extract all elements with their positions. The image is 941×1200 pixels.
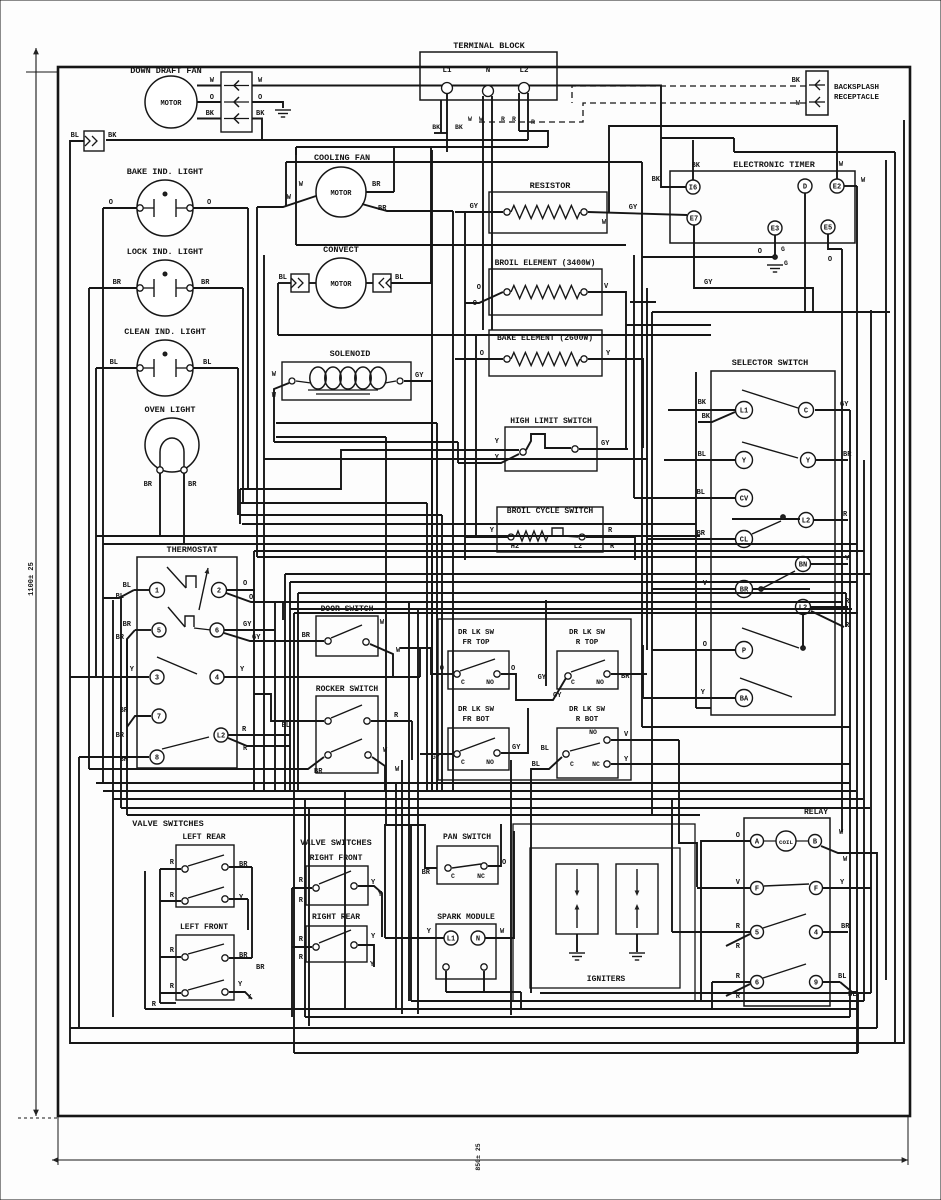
svg-text:TERMINAL BLOCK: TERMINAL BLOCK (453, 41, 525, 51)
svg-text:C: C (461, 759, 465, 766)
wire BL left bus (70, 120, 904, 1043)
svg-text:BL: BL (532, 761, 540, 769)
svg-text:BK: BK (256, 110, 265, 118)
selector pin CV (736, 490, 753, 507)
svg-text:RECEPTACLE: RECEPTACLE (834, 94, 880, 102)
svg-text:DR LK SW: DR LK SW (569, 629, 606, 637)
svg-text:L1: L1 (740, 407, 748, 415)
svg-text:7: 7 (157, 713, 161, 721)
svg-text:BR: BR (113, 279, 122, 287)
svg-text:N: N (486, 67, 491, 75)
convect connector left (291, 274, 309, 292)
left bus vertical wires (102, 208, 104, 598)
wire verticals left of channel (239, 489, 241, 524)
svg-text:OVEN LIGHT: OVEN LIGHT (144, 405, 195, 415)
wires r bot (611, 739, 679, 741)
right rear wires (292, 946, 312, 948)
door switch box (316, 616, 378, 656)
selector pin BN (796, 557, 811, 572)
thermostat wires pin L2 (228, 734, 290, 736)
svg-text:BROIL CYCLE SWITCH: BROIL CYCLE SWITCH (507, 507, 594, 516)
svg-text:COOLING FAN: COOLING FAN (314, 153, 370, 163)
wires r top (611, 673, 640, 675)
wire pan to spark (385, 825, 437, 938)
svg-text:BR: BR (256, 964, 265, 972)
timer pin E2 (830, 179, 844, 193)
rocker switch box (316, 696, 378, 773)
rocker switch wires (254, 694, 324, 721)
svg-text:F: F (814, 885, 818, 893)
svg-text:D: D (803, 183, 807, 191)
resistor R1 box (489, 192, 607, 233)
svg-text:1100± 25: 1100± 25 (28, 562, 36, 596)
svg-text:E2: E2 (833, 183, 841, 191)
svg-text:GY: GY (243, 621, 252, 629)
motor M1 down draft fan (145, 76, 197, 128)
igniters enclosing boxes (513, 824, 695, 1001)
bottom dimension arrow 850+-25 (52, 1159, 908, 1161)
thermostat pin L2 (214, 728, 228, 742)
svg-text:THERMOSTAT: THERMOSTAT (166, 545, 217, 555)
svg-text:O: O (477, 284, 481, 292)
svg-text:850± 25: 850± 25 (475, 1143, 482, 1170)
selector pin P (736, 642, 753, 659)
svg-text:L1: L1 (442, 67, 452, 75)
dashed wire BK to backsplash (572, 86, 806, 103)
wire verticals to selector (695, 372, 697, 708)
svg-text:BAKE IND. LIGHT: BAKE IND. LIGHT (127, 167, 204, 177)
svg-text:LEFT FRONT: LEFT FRONT (180, 923, 228, 932)
svg-text:O: O (207, 199, 211, 207)
bake element 2600W box (489, 330, 602, 376)
wire horizontals lower mid (96, 782, 849, 784)
dashed wire W to backsplash (477, 103, 806, 122)
svg-text:BL: BL (697, 489, 705, 497)
svg-text:C: C (804, 407, 808, 415)
svg-text:L2: L2 (802, 517, 810, 525)
convect connector right (373, 274, 391, 292)
svg-text:BL: BL (541, 745, 549, 753)
relay pin A (751, 835, 764, 848)
svg-text:N: N (476, 935, 480, 943)
timer pin D (798, 179, 812, 193)
left valve bus wires (159, 869, 161, 1003)
svg-text:BR: BR (123, 621, 132, 629)
svg-text:2: 2 (217, 587, 221, 595)
svg-text:4: 4 (215, 674, 219, 682)
pan switch wires (488, 824, 501, 866)
left rear wires (160, 868, 181, 870)
svg-text:BR: BR (144, 481, 153, 489)
svg-text:I6: I6 (689, 184, 697, 192)
timer pin I6 (686, 180, 700, 194)
motor M3 convect (316, 258, 366, 308)
relay pin 4 (810, 926, 823, 939)
svg-text:BR: BR (314, 768, 323, 776)
broil element 3400W box (489, 269, 602, 315)
svg-text:BK: BK (652, 176, 661, 184)
svg-text:BR: BR (422, 869, 431, 877)
high limit wires (465, 449, 519, 451)
svg-text:BR: BR (201, 279, 210, 287)
spark module pin N (471, 931, 485, 945)
thermostat wires pin7 (127, 716, 151, 727)
wire cooling fan box (295, 147, 297, 155)
selector pin Y right (801, 453, 816, 468)
svg-text:O: O (480, 350, 484, 358)
svg-text:DOWN DRAFT FAN: DOWN DRAFT FAN (130, 66, 201, 76)
electronic timer box (670, 171, 855, 243)
wire O to ground (252, 102, 283, 108)
svg-text:GY: GY (704, 279, 713, 287)
svg-text:BR: BR (302, 632, 311, 640)
svg-text:BL: BL (71, 132, 79, 140)
svg-text:O: O (703, 641, 707, 649)
svg-text:BL: BL (123, 582, 131, 590)
svg-text:C: C (571, 679, 575, 686)
thermostat wires pin6 (224, 629, 275, 631)
svg-text:VALVE SWITCHES: VALVE SWITCHES (300, 838, 371, 848)
svg-text:GY: GY (470, 203, 479, 211)
svg-text:BK: BK (108, 132, 117, 140)
wire bus under convect (278, 334, 711, 336)
svg-text:PAN SWITCH: PAN SWITCH (443, 833, 491, 842)
svg-text:O: O (109, 199, 113, 207)
svg-text:RELAY: RELAY (804, 808, 828, 817)
svg-text:W: W (468, 116, 472, 123)
wire BK loop (106, 119, 262, 141)
connector BL-BK (84, 131, 104, 151)
svg-text:P: P (742, 647, 746, 655)
svg-text:BK: BK (455, 124, 463, 131)
svg-text:BA: BA (740, 695, 749, 703)
thermostat wires pin8 (79, 756, 149, 758)
thermostat wires pin1 (134, 589, 150, 591)
selector pin Y left (736, 452, 753, 469)
high limit switch box (505, 427, 597, 471)
broil element wires (465, 292, 503, 303)
svg-text:E3: E3 (771, 225, 779, 233)
svg-text:BR: BR (841, 923, 850, 931)
svg-text:HIGH LIMIT SWITCH: HIGH LIMIT SWITCH (510, 417, 592, 426)
svg-text:SOLENOID: SOLENOID (330, 349, 371, 359)
svg-text:5: 5 (755, 929, 759, 937)
motor M2 cooling fan (316, 167, 366, 217)
ground igniter 2 (636, 934, 638, 952)
timer pin E7 (687, 211, 701, 225)
convect wires (309, 282, 316, 284)
svg-text:BL: BL (395, 274, 403, 282)
svg-text:GY: GY (601, 440, 610, 448)
svg-text:SELECTOR SWITCH: SELECTOR SWITCH (732, 358, 809, 368)
svg-text:C: C (570, 761, 574, 768)
svg-text:BL: BL (698, 451, 706, 459)
wire center vertical channel (431, 150, 433, 790)
svg-text:RIGHT FRONT: RIGHT FRONT (310, 854, 363, 863)
wire clean light (96, 367, 137, 369)
ground down draft fan (275, 109, 291, 111)
svg-text:BK: BK (698, 399, 707, 407)
wire bus left channel (112, 600, 114, 1017)
svg-text:BN: BN (799, 561, 807, 569)
svg-text:BR: BR (378, 205, 387, 213)
svg-text:NC: NC (592, 761, 600, 768)
svg-text:BAKE ELEMENT (2600W): BAKE ELEMENT (2600W) (497, 334, 593, 343)
svg-text:GY: GY (512, 744, 521, 752)
svg-text:DR LK SW: DR LK SW (458, 629, 495, 637)
right front valve switch (306, 866, 368, 905)
svg-text:O: O (258, 94, 262, 102)
wire right bus verticals (841, 249, 843, 832)
relay coil (776, 831, 796, 851)
thermostat box (137, 557, 237, 768)
outer border frame (58, 67, 910, 1116)
svg-text:BL: BL (279, 274, 287, 282)
resistor wires (455, 211, 503, 213)
thermostat wires pin3 (70, 676, 149, 678)
right front wires (292, 887, 312, 889)
terminal block (420, 52, 557, 100)
svg-text:BK: BK (702, 413, 711, 421)
svg-text:9: 9 (814, 979, 818, 987)
svg-text:ELECTRONIC TIMER: ELECTRONIC TIMER (733, 160, 816, 170)
relay pin F left (751, 882, 764, 895)
svg-text:E7: E7 (690, 215, 698, 223)
svg-text:ROCKER SWITCH: ROCKER SWITCH (316, 685, 379, 694)
svg-text:VALVE SWITCHES: VALVE SWITCHES (132, 819, 203, 829)
backsplash receptacle (806, 71, 828, 115)
svg-text:IGNITERS: IGNITERS (587, 975, 626, 984)
down draft fan connector (221, 72, 252, 132)
svg-text:G: G (781, 246, 785, 253)
igniter 1 (556, 864, 598, 934)
timer wires (692, 140, 694, 180)
selector pin CL (736, 531, 753, 548)
wire oven light terminals (159, 473, 161, 536)
svg-text:BR: BR (372, 181, 381, 189)
svg-text:NC: NC (477, 873, 485, 880)
svg-text:NO: NO (589, 729, 597, 736)
wire bottom verticals (510, 760, 512, 1015)
svg-text:BL: BL (110, 359, 118, 367)
svg-text:R BOT: R BOT (576, 716, 599, 724)
svg-text:BK: BK (792, 77, 801, 85)
svg-text:L1: L1 (447, 935, 455, 943)
svg-text:DR LK SW: DR LK SW (569, 706, 606, 714)
spark module pin L1 (444, 931, 458, 945)
svg-text:6: 6 (755, 979, 759, 987)
igniter 2 (616, 864, 658, 934)
svg-text:5: 5 (157, 627, 161, 635)
svg-text:1: 1 (155, 587, 159, 595)
wire horizontals right of timer (652, 311, 890, 313)
svg-text:BL: BL (838, 973, 846, 981)
thermostat pin 5 (152, 623, 166, 637)
svg-text:O: O (828, 256, 832, 264)
svg-text:BACKSPLASH: BACKSPLASH (834, 84, 879, 92)
svg-text:COIL: COIL (779, 839, 793, 846)
svg-text:8: 8 (155, 754, 159, 762)
wire bake light (103, 207, 137, 209)
svg-text:F: F (755, 885, 759, 893)
svg-text:BROIL ELEMENT (3400W): BROIL ELEMENT (3400W) (495, 259, 596, 268)
svg-text:MOTOR: MOTOR (160, 100, 182, 108)
svg-text:L2: L2 (217, 732, 225, 740)
svg-text:MOTOR: MOTOR (330, 281, 352, 289)
svg-text:4: 4 (814, 929, 818, 937)
svg-text:DR LK SW: DR LK SW (458, 706, 495, 714)
svg-text:E5: E5 (824, 224, 832, 232)
ground igniter 1 (576, 934, 578, 952)
thermostat wires pin4 (224, 676, 420, 678)
timer pin E5 (821, 220, 835, 234)
wires under terminal block (446, 93, 448, 152)
svg-text:O: O (249, 594, 253, 602)
svg-text:O: O (502, 859, 506, 867)
relay pin 9 (810, 976, 823, 989)
selector pin L2 upper (799, 513, 814, 528)
svg-text:C: C (461, 679, 465, 686)
thermostat wires pin5 (135, 629, 151, 631)
svg-text:O: O (473, 300, 477, 308)
relay pin B (809, 835, 822, 848)
selector pin BA (736, 690, 753, 707)
svg-text:CONVECT: CONVECT (323, 245, 359, 255)
bake element wires (455, 358, 503, 360)
svg-text:MOTOR: MOTOR (330, 190, 352, 198)
relay pin F right (810, 882, 823, 895)
timer pin E3 (768, 221, 782, 235)
left front wires (160, 956, 181, 958)
wire motor to connector (197, 85, 221, 87)
broil cycle switch box (497, 507, 603, 552)
svg-text:BK: BK (206, 110, 215, 118)
svg-text:RESISTOR: RESISTOR (530, 181, 572, 191)
svg-text:G: G (784, 260, 788, 267)
svg-text:LOCK IND. LIGHT: LOCK IND. LIGHT (127, 247, 204, 257)
timer E5 wire (828, 234, 842, 249)
svg-text:3: 3 (155, 674, 159, 682)
thermostat pin 1 (150, 583, 165, 598)
thermostat pin 3 (150, 670, 164, 684)
svg-text:NO: NO (596, 679, 604, 686)
ground timer (767, 264, 783, 266)
svg-text:C: C (451, 873, 455, 880)
selector pin BR (736, 581, 753, 598)
wires fr top (400, 647, 431, 649)
wire W to timer (252, 86, 686, 188)
svg-text:BL: BL (116, 593, 124, 601)
svg-text:GY: GY (553, 692, 562, 700)
svg-text:BL: BL (203, 359, 211, 367)
svg-text:O: O (758, 248, 762, 256)
relay pin 5 (751, 926, 764, 939)
selector pin C (799, 403, 814, 418)
svg-text:FR BOT: FR BOT (462, 716, 490, 724)
door lock switches group box (438, 619, 631, 780)
thermostat symbol upper (167, 567, 186, 588)
wire center channel horizontals (276, 422, 437, 424)
wire bus left bottom (102, 598, 104, 783)
thermostat pin 6 (210, 623, 224, 637)
svg-text:R TOP: R TOP (576, 639, 599, 647)
selector switch box (711, 371, 835, 715)
svg-text:SPARK MODULE: SPARK MODULE (437, 913, 495, 922)
high limit switch symbol (526, 434, 571, 450)
svg-text:BK: BK (432, 124, 440, 131)
svg-text:O: O (210, 94, 214, 102)
svg-text:CLEAN IND. LIGHT: CLEAN IND. LIGHT (124, 327, 206, 337)
thermostat pin 7 (152, 709, 166, 723)
thermostat pin 8 (150, 750, 164, 764)
spark module wires (385, 937, 444, 939)
thermostat pin 4 (210, 670, 224, 684)
svg-text:6: 6 (215, 627, 219, 635)
selector pin L2 lower (796, 600, 811, 615)
svg-text:GY: GY (629, 204, 638, 212)
selector pin L1 (736, 402, 753, 419)
solenoid wires (274, 383, 289, 442)
wire right bus horizontals bottom (540, 992, 871, 994)
timer E7 wire down (694, 225, 813, 312)
left dimension arrow 1100+-25 (35, 48, 37, 1116)
thermostat wires pin2 (226, 589, 255, 591)
svg-text:L2: L2 (519, 67, 529, 75)
svg-text:O: O (243, 580, 247, 588)
svg-text:NO: NO (486, 759, 494, 766)
svg-text:FR TOP: FR TOP (462, 639, 490, 647)
svg-text:GY: GY (415, 372, 424, 380)
svg-text:LEFT REAR: LEFT REAR (182, 833, 225, 842)
door switch wires (300, 640, 324, 642)
wires fr bot (420, 753, 453, 755)
svg-text:CV: CV (740, 495, 749, 503)
svg-text:O: O (511, 665, 515, 673)
thermostat symbol lower (168, 607, 185, 627)
thermostat pin 2 (212, 583, 227, 598)
relay pin 6 (751, 976, 764, 989)
broil cycle wires (465, 536, 508, 538)
wire lock light (89, 287, 137, 289)
svg-text:O: O (736, 832, 740, 840)
svg-text:RIGHT REAR: RIGHT REAR (312, 913, 360, 922)
svg-text:BR: BR (188, 481, 197, 489)
svg-text:NO: NO (486, 679, 494, 686)
